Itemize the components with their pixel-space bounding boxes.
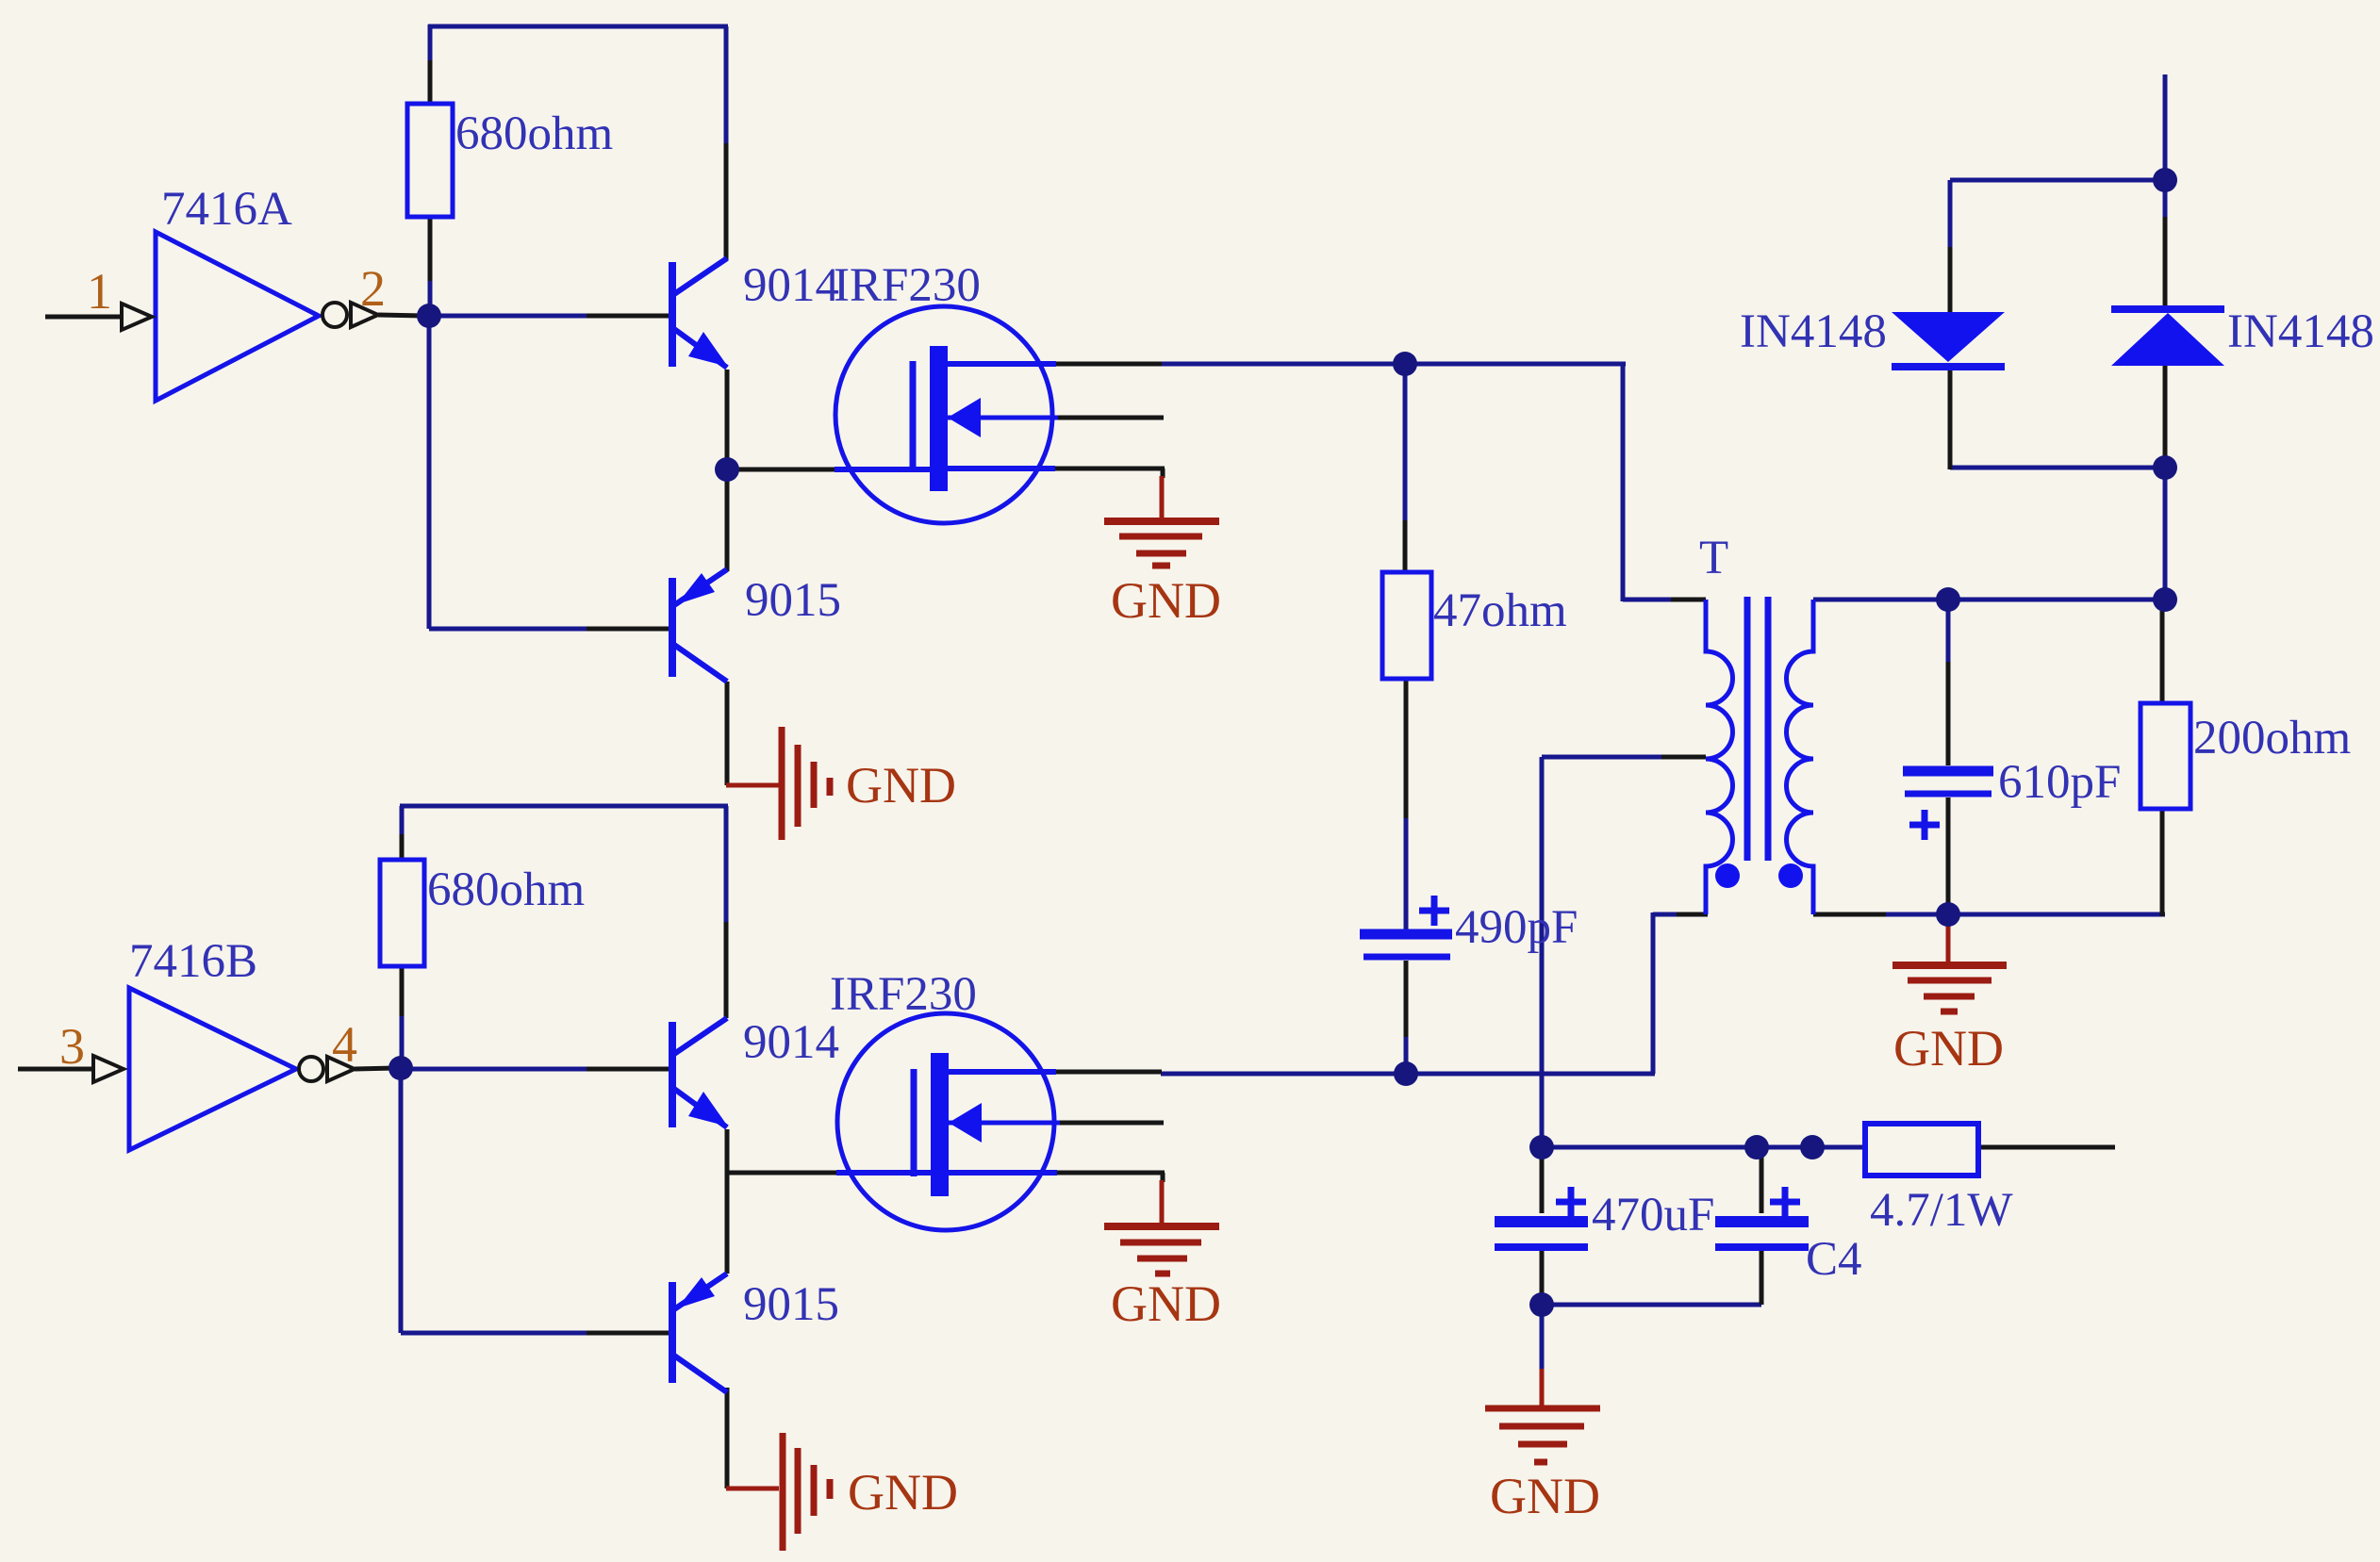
svg-text:490pF: 490pF [1455,901,1578,954]
svg-text:GND: GND [848,1464,958,1521]
svg-text:GND: GND [1893,1020,2004,1077]
svg-text:GND: GND [1111,1275,1221,1332]
svg-text:C4: C4 [1806,1233,1862,1286]
svg-text:9015: 9015 [745,574,841,627]
svg-text:2: 2 [360,260,386,317]
svg-text:9015: 9015 [743,1278,839,1331]
svg-text:9014: 9014 [743,259,839,312]
svg-text:GND: GND [846,757,956,814]
svg-text:680ohm: 680ohm [427,863,585,916]
svg-text:4.7/1W: 4.7/1W [1870,1184,2013,1237]
svg-text:1: 1 [87,263,112,320]
svg-text:470uF: 470uF [1592,1189,1714,1241]
svg-text:7416B: 7416B [129,935,257,988]
svg-text:IN4148: IN4148 [2227,305,2374,358]
svg-text:3: 3 [59,1018,85,1075]
svg-text:610pF: 610pF [1998,756,2121,809]
svg-text:GND: GND [1490,1468,1600,1524]
svg-text:7416A: 7416A [161,183,292,236]
svg-text:IN4148: IN4148 [1740,305,1887,358]
svg-text:200ohm: 200ohm [2193,712,2351,765]
svg-text:680ohm: 680ohm [455,107,613,160]
svg-text:9014: 9014 [743,1016,839,1069]
svg-text:T: T [1699,532,1728,584]
svg-text:4: 4 [332,1016,357,1073]
svg-text:IRF230: IRF230 [834,259,981,312]
svg-text:IRF230: IRF230 [830,968,977,1021]
svg-text:GND: GND [1111,572,1221,629]
svg-text:47ohm: 47ohm [1433,584,1567,637]
